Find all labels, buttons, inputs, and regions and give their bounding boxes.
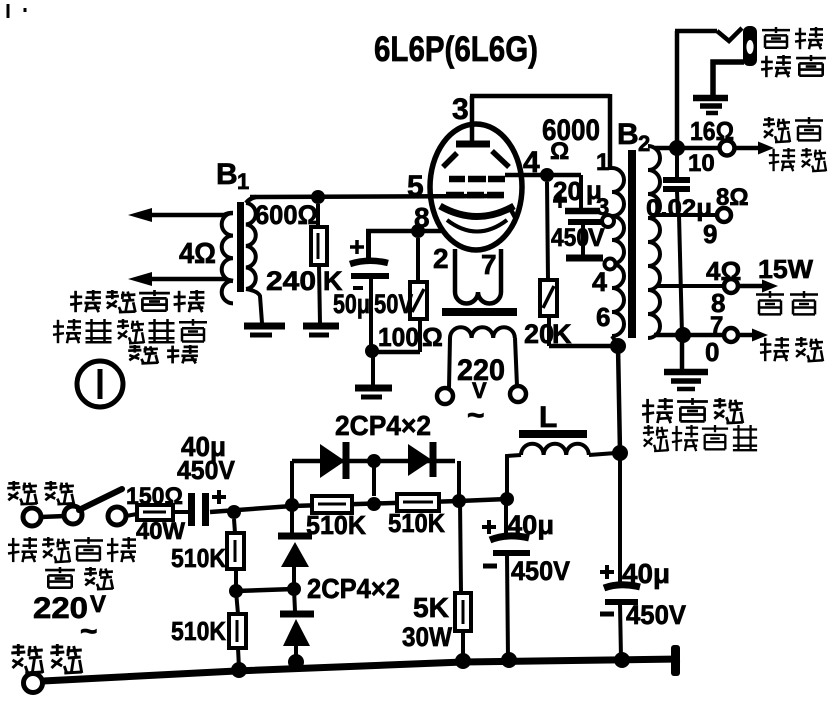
svg-text:Ω: Ω: [550, 138, 569, 165]
svg-text:450V: 450V: [177, 455, 236, 485]
svg-text:6L6P(6L6G): 6L6P(6L6G): [374, 30, 538, 69]
svg-text:450V: 450V: [511, 556, 570, 586]
svg-text:7: 7: [481, 249, 497, 280]
svg-text:4Ω: 4Ω: [179, 238, 216, 270]
svg-text:7: 7: [710, 312, 723, 339]
svg-text:3: 3: [452, 93, 469, 126]
svg-text:1: 1: [237, 169, 249, 194]
svg-text:40W: 40W: [136, 518, 185, 545]
svg-text:V: V: [588, 224, 605, 252]
svg-text:510K: 510K: [171, 543, 226, 573]
svg-text:0: 0: [705, 337, 719, 367]
svg-text:K: K: [552, 319, 572, 349]
svg-text:1: 1: [596, 149, 609, 176]
svg-text:40μ: 40μ: [622, 558, 670, 589]
svg-text:6: 6: [596, 302, 610, 332]
svg-text:2CP4×2: 2CP4×2: [307, 573, 400, 604]
svg-text:10: 10: [688, 150, 715, 177]
svg-text:15W: 15W: [758, 254, 813, 284]
svg-text:2CP4×2: 2CP4×2: [335, 410, 431, 441]
svg-text:L: L: [539, 401, 557, 434]
svg-text:240: 240: [266, 266, 316, 296]
svg-text:B: B: [617, 118, 639, 151]
svg-text:150Ω: 150Ω: [126, 483, 183, 510]
svg-text:2: 2: [433, 243, 449, 274]
svg-text:2: 2: [638, 131, 650, 156]
svg-text:30W: 30W: [402, 622, 452, 652]
svg-text:600Ω: 600Ω: [255, 200, 318, 230]
svg-text:B: B: [216, 158, 238, 191]
svg-text:4: 4: [592, 267, 607, 297]
svg-text:20: 20: [553, 176, 582, 206]
svg-text:9: 9: [703, 219, 717, 249]
svg-text:40μ: 40μ: [507, 510, 554, 540]
svg-text:510K: 510K: [171, 616, 226, 646]
svg-text:V: V: [90, 591, 106, 618]
svg-text:450V: 450V: [626, 600, 686, 630]
svg-text:3: 3: [596, 194, 609, 221]
svg-text:100: 100: [378, 322, 419, 352]
svg-text:510K: 510K: [306, 510, 366, 540]
svg-text:Ω: Ω: [422, 322, 443, 352]
svg-text:20: 20: [524, 319, 554, 349]
svg-text:5K: 5K: [413, 592, 449, 623]
svg-text:510K: 510K: [388, 508, 445, 538]
svg-text:50V: 50V: [374, 289, 413, 319]
svg-text:~: ~: [467, 399, 485, 432]
svg-text:450: 450: [551, 224, 589, 252]
svg-text:50μ: 50μ: [333, 289, 370, 319]
svg-text:0.02μ: 0.02μ: [646, 195, 712, 222]
svg-text:~: ~: [80, 615, 98, 648]
